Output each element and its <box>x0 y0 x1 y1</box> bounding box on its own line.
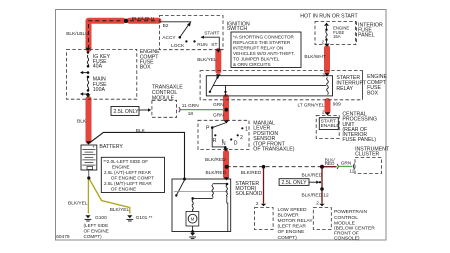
svg-text:2: 2 <box>240 135 243 141</box>
svg-text:BLK: BLK <box>77 119 87 125</box>
svg-text:OF TRANSAXLE): OF TRANSAXLE) <box>253 147 294 153</box>
svg-text:MOTOR RELAY: MOTOR RELAY <box>278 218 314 224</box>
svg-text:P: P <box>206 126 210 132</box>
svg-text:MODULE: MODULE <box>334 220 356 226</box>
svg-text:1: 1 <box>245 127 248 133</box>
svg-text:D: D <box>234 140 238 146</box>
svg-text:2.5L (A/T)-LEFT REAR: 2.5L (A/T)-LEFT REAR <box>104 170 152 175</box>
svg-text:(BELOW CENTER: (BELOW CENTER <box>334 226 375 232</box>
svg-text:START: START <box>204 30 219 36</box>
svg-text:BLK/LBLU: BLK/LBLU <box>66 31 89 37</box>
svg-text:OF ENGINE: OF ENGINE <box>278 229 306 235</box>
svg-text:12: 12 <box>349 169 355 175</box>
svg-text:ACCY: ACCY <box>162 35 176 41</box>
svg-text:2: 2 <box>322 40 325 46</box>
svg-text:POWERTRAIN: POWERTRAIN <box>334 209 368 215</box>
svg-text:2.5L ONLY: 2.5L ONLY <box>114 109 140 115</box>
svg-text:BLK: BLK <box>136 128 146 134</box>
svg-text:RELAY: RELAY <box>336 86 353 92</box>
svg-text:OF ENGINE: OF ENGINE <box>111 186 136 191</box>
svg-text:ENGINE: ENGINE <box>112 165 130 170</box>
svg-text:(LEFT REAR: (LEFT REAR <box>278 223 307 229</box>
svg-text:BLK/YEL: BLK/YEL <box>110 207 130 213</box>
svg-text:M: M <box>191 217 195 222</box>
svg-text:MODULE: MODULE <box>152 96 175 102</box>
svg-text:BLOWER: BLOWER <box>278 212 300 218</box>
svg-text:TO JUMPER BLK/YEL: TO JUMPER BLK/YEL <box>233 57 280 62</box>
svg-text:LOCK: LOCK <box>171 43 185 49</box>
svg-text:2.5L ONLY: 2.5L ONLY <box>282 180 308 186</box>
svg-text:+: + <box>92 145 95 150</box>
svg-text:INTERRUPT RELAY ON: INTERRUPT RELAY ON <box>233 45 283 50</box>
svg-text:FUSE PANEL): FUSE PANEL) <box>342 137 376 143</box>
svg-text:CONTROL: CONTROL <box>334 215 358 221</box>
svg-text:ENABLE: ENABLE <box>321 123 340 129</box>
svg-text:OF ENGINE COMPT: OF ENGINE COMPT <box>111 176 154 181</box>
svg-text:BLK/RED: BLK/RED <box>205 157 226 163</box>
svg-text:BLK/LBLU: BLK/LBLU <box>132 16 155 22</box>
svg-text:R: R <box>213 138 217 144</box>
svg-text:BLK/RED: BLK/RED <box>302 172 323 178</box>
svg-text:2.5L (M/T)-LEFT REAR: 2.5L (M/T)-LEFT REAR <box>104 181 152 186</box>
svg-text:LT GRN/YEL: LT GRN/YEL <box>298 102 325 107</box>
svg-text:BLK/YEL: BLK/YEL <box>197 57 217 63</box>
svg-text:909: 909 <box>333 101 341 107</box>
svg-text:G101 **: G101 ** <box>136 215 153 221</box>
svg-text:12: 12 <box>323 193 329 199</box>
svg-text:VEHICLES W/O ANTI-THEFT.: VEHICLES W/O ANTI-THEFT. <box>233 51 295 56</box>
svg-text:BLK/RED: BLK/RED <box>206 170 227 176</box>
svg-text:BLK/YEL: BLK/YEL <box>68 201 88 207</box>
svg-text:100A: 100A <box>93 87 106 93</box>
svg-text:ST: ST <box>211 42 217 48</box>
svg-text:PANEL: PANEL <box>358 33 375 39</box>
svg-text:COMPT): COMPT) <box>84 234 103 239</box>
svg-text:(LEFT SIDE: (LEFT SIDE <box>84 223 109 228</box>
svg-text:RED: RED <box>325 161 335 166</box>
svg-text:CLUSTER: CLUSTER <box>355 151 379 157</box>
svg-text:*A SHORTING CONNECTOR: *A SHORTING CONNECTOR <box>233 34 295 39</box>
svg-text:15A: 15A <box>333 34 341 39</box>
svg-text:2: 2 <box>322 110 325 116</box>
svg-text:18: 18 <box>188 111 194 117</box>
svg-text:B2: B2 <box>163 23 169 29</box>
svg-text:RUN: RUN <box>197 42 208 48</box>
svg-text:BATTERY: BATTERY <box>99 144 123 150</box>
svg-text:40A: 40A <box>93 64 103 70</box>
svg-text:BOX: BOX <box>367 90 378 96</box>
svg-text:2: 2 <box>256 201 259 207</box>
svg-text:REPLACES THE STARTER: REPLACES THE STARTER <box>233 40 291 45</box>
svg-text:GRN: GRN <box>213 113 224 119</box>
svg-text:HOT IN RUN OR START: HOT IN RUN OR START <box>300 13 358 19</box>
svg-text:N: N <box>222 141 226 147</box>
svg-text:BOX: BOX <box>140 65 151 71</box>
svg-text:SWITCH: SWITCH <box>227 26 248 32</box>
svg-text:11 GRN: 11 GRN <box>182 103 200 109</box>
svg-text:SOLENOID: SOLENOID <box>235 191 262 197</box>
svg-text:LOW SPEED: LOW SPEED <box>278 207 308 213</box>
svg-text:COMPT): COMPT) <box>278 235 298 241</box>
svg-text:3: 3 <box>322 73 325 79</box>
svg-text:**2.0L-LEFT SIDE OF: **2.0L-LEFT SIDE OF <box>103 159 148 164</box>
svg-text:& ORN CIRCUITS: & ORN CIRCUITS <box>233 62 271 67</box>
svg-text:GRN: GRN <box>341 161 352 167</box>
svg-text:60479: 60479 <box>56 234 70 240</box>
svg-text:CONSOLE): CONSOLE) <box>334 235 360 241</box>
svg-text:BLK/RED: BLK/RED <box>302 193 323 199</box>
svg-text:2: 2 <box>316 200 319 206</box>
svg-text:OF ENGINE: OF ENGINE <box>84 229 109 234</box>
svg-text:G100: G100 <box>95 215 107 221</box>
svg-text:GRN: GRN <box>213 102 224 108</box>
svg-text:BLK/RED: BLK/RED <box>241 170 262 176</box>
svg-text:BLK/WHT: BLK/WHT <box>304 54 325 60</box>
